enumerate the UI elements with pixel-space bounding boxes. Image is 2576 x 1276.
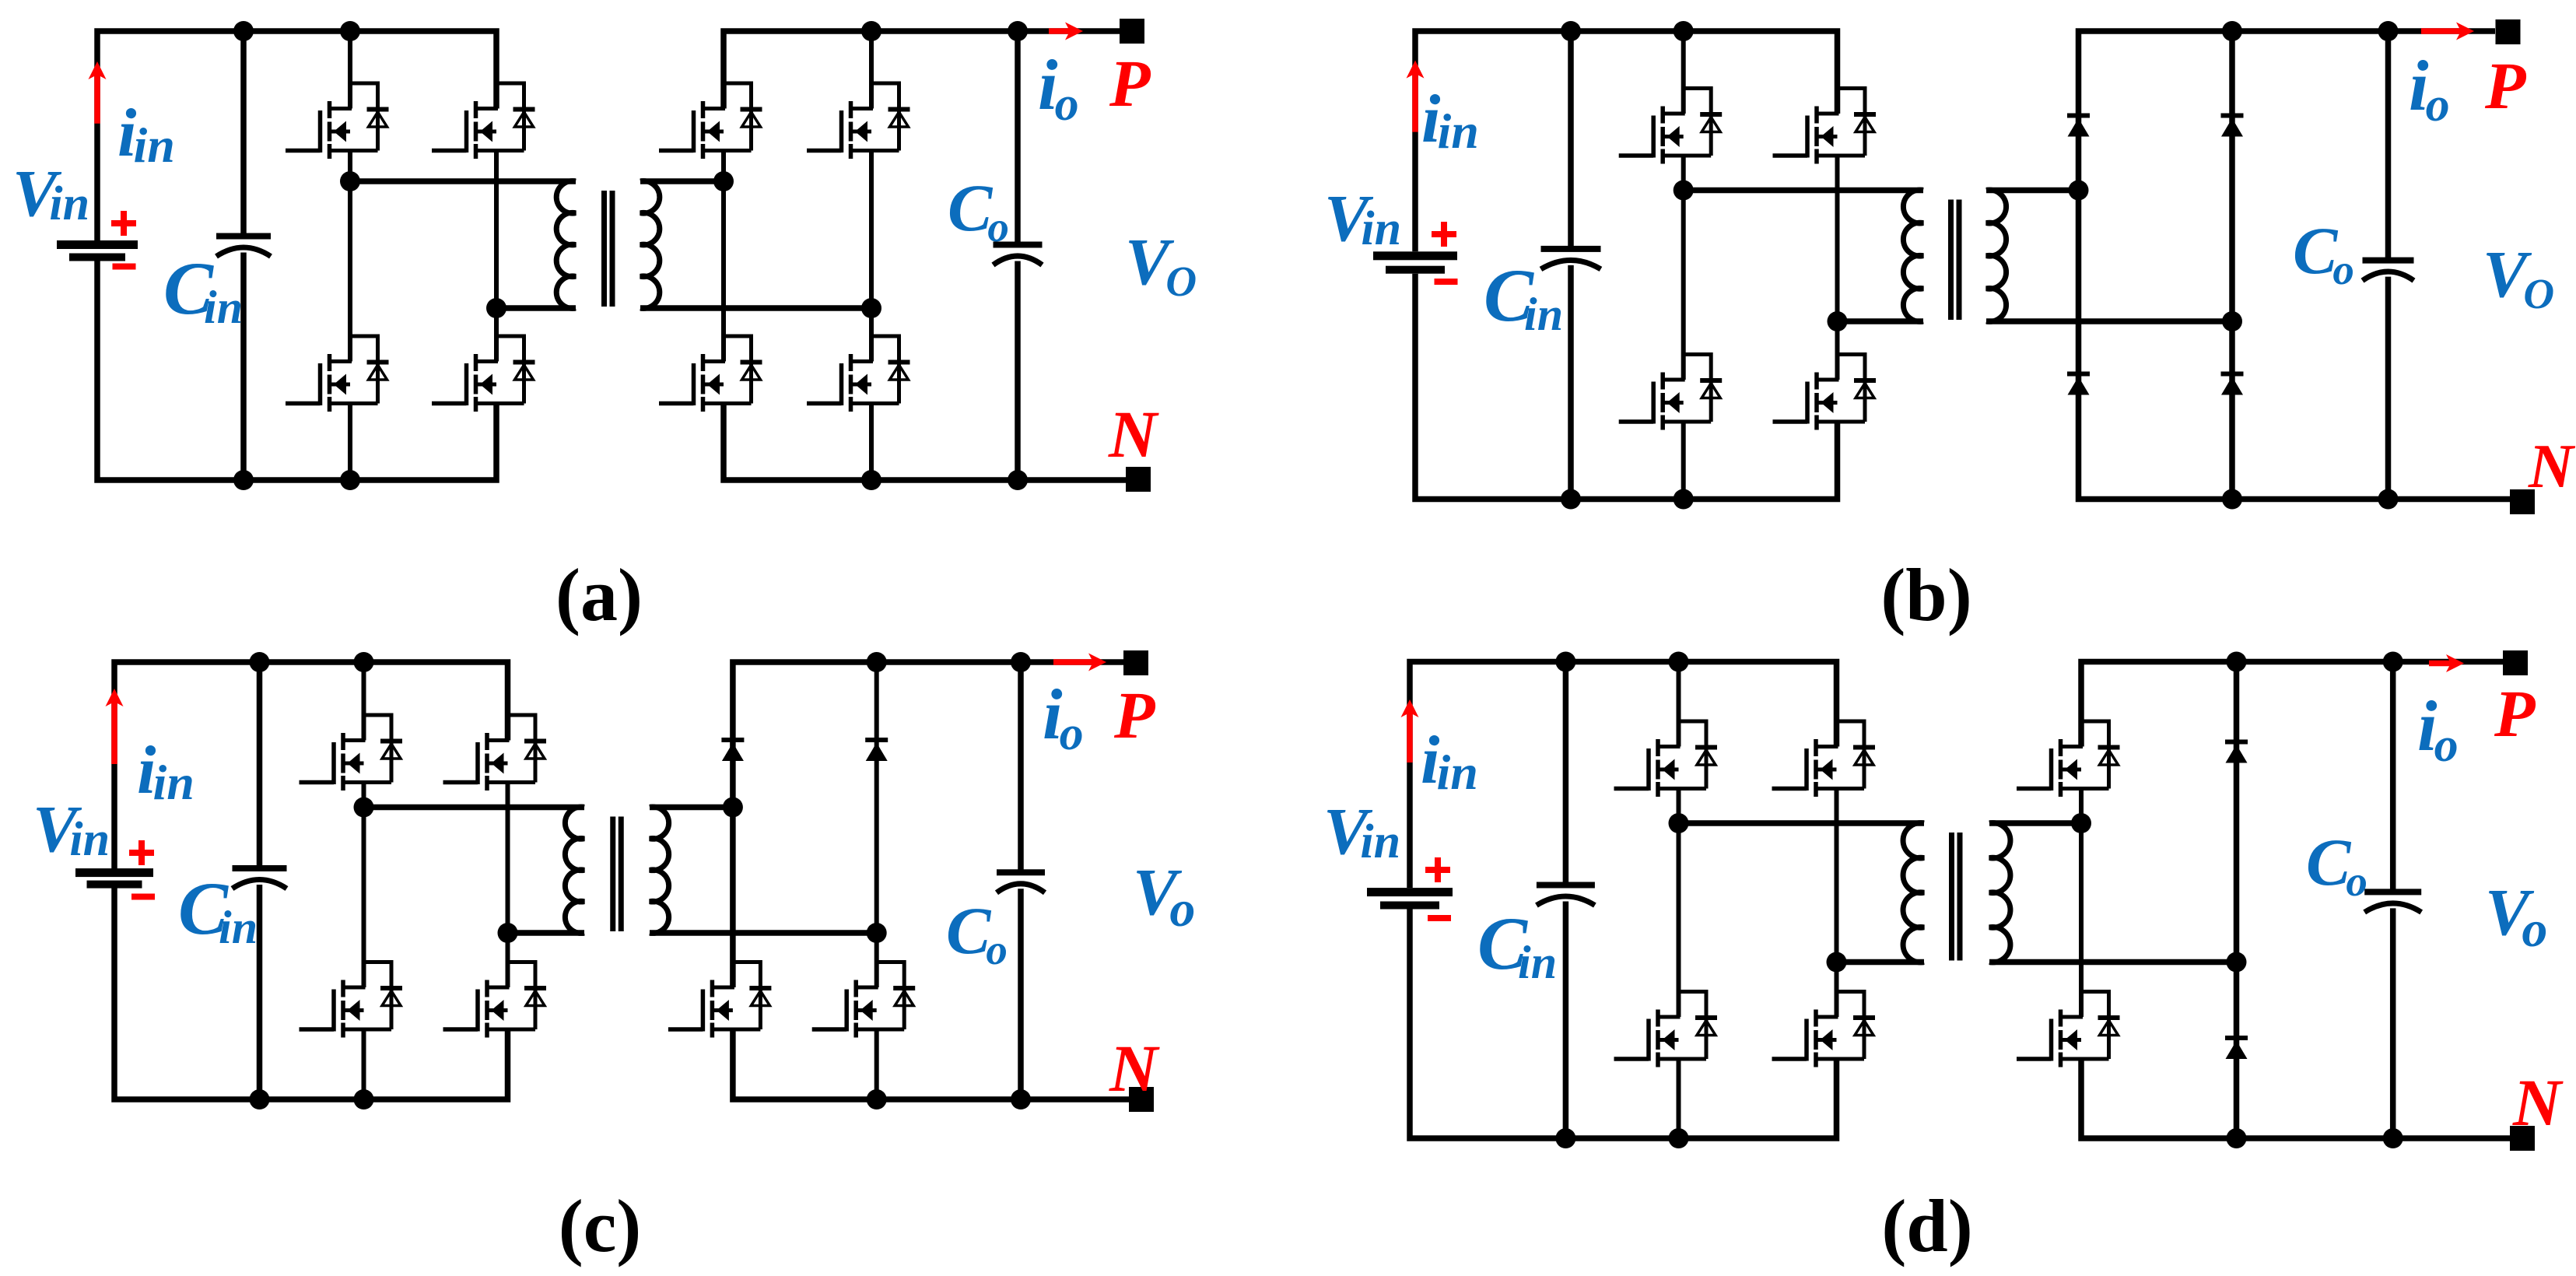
diode D2 [2225,1036,2248,1040]
node A secondary junction [2071,813,2091,833]
junction Cin top [1561,21,1581,41]
transformer core [610,817,615,932]
node B junction [1827,952,1847,973]
wire leg1 mid [348,151,352,362]
arrow io [2421,28,2462,34]
wire secondary top [640,178,724,184]
wire leg2 mid [494,151,499,362]
wire Cin lower [257,885,263,1099]
mosfet S8 [871,336,899,404]
junction leg4 top [2227,652,2247,672]
wire secondary top [650,805,733,811]
wire input loop bottom [97,261,496,481]
junction Cin bottom [250,1089,270,1109]
wire leg4 drain [869,31,874,109]
svg-text:(d): (d) [1881,1184,1972,1267]
svg-text:N: N [1108,397,1159,471]
mosfet S3 [350,336,378,404]
wire leg3 mid [721,151,726,362]
mosfet S1 [1684,89,1712,156]
wire leg4 mid [869,151,874,362]
wire secondary bottom [1989,959,2237,966]
wire secondary bottom [640,305,871,311]
wire leg4 top [874,662,879,987]
mosfet S5 [733,962,761,1030]
circuit (d) hybrid bridge | wire input loop top [1410,662,1837,889]
wire Co upper [2385,31,2392,258]
transformer secondary winding [1986,190,2006,321]
node B secondary junction [861,298,881,318]
junction Co top [1011,652,1031,672]
wire leg2 mid [1835,156,1840,380]
circuit (b) full-bridge + diode rectifier | wire input loop top [1415,31,1838,251]
node A secondary junction [2069,181,2089,201]
battery Vin [57,240,138,249]
node A junction [340,171,360,191]
plus sign [129,850,154,856]
wire leg1 source [362,1029,366,1099]
junction leg4 top [867,652,887,672]
capacitor Co [994,242,1043,248]
terminal P [2496,19,2521,44]
wire leg4 bottom [874,1029,879,1099]
junction leg4 bottom [2222,489,2242,510]
diode D3 [2067,372,2090,377]
junction Co bottom [1008,470,1028,490]
junction leg4 top [861,21,881,41]
node A junction [1674,181,1694,201]
wire Cin lower [240,253,247,481]
diode D2 [2221,114,2244,118]
node A secondary junction [723,797,743,818]
diode D1 [2225,740,2248,745]
arrow io [1053,659,1094,665]
capacitor Cin [1541,246,1601,252]
arrow iin [111,701,117,764]
wire secondary top [1989,820,2081,826]
junction Cin bottom [1555,1128,1575,1148]
wire rectifier left leg [2079,31,2511,500]
transformer primary winding [1903,190,1923,321]
mosfet S3 [1684,355,1712,422]
wire leg1 drain [348,31,352,109]
wire leg3 top [733,662,1123,987]
junction leg1 bottom [354,1089,374,1109]
mosfet S1 [364,715,392,783]
wire leg1 source [1677,1059,1681,1138]
mosfet S3 [1679,992,1707,1060]
junction leg1 bottom [1669,1128,1689,1148]
mosfet S3 [364,962,392,1030]
capacitor Co [2364,889,2421,895]
battery Vin [75,868,153,877]
terminal P [1120,19,1144,44]
junction Co top [2378,21,2399,41]
junction Co bottom [2378,489,2399,510]
svg-text:P: P [2484,48,2527,123]
junction leg1 bottom [340,470,360,490]
transformer secondary winding [650,807,669,933]
diode D1 [721,738,744,742]
mosfet S6 [871,83,899,151]
junction Co bottom [1011,1089,1031,1109]
wire input loop bottom [1415,274,1838,500]
junction Cin bottom [233,470,254,490]
mosfet S4 [1837,992,1865,1060]
wire node A to transformer [1679,820,1925,826]
wire Co lower [1018,889,1024,1099]
terminal N [1126,467,1151,492]
junction Cin top [233,21,254,41]
junction Co top [2383,652,2403,672]
node A junction [1669,813,1689,833]
minus sign [1435,279,1458,285]
arrow io [1049,28,1071,34]
wire leg4 source [869,404,874,481]
terminal N [2510,1126,2535,1151]
wire Co upper [1018,662,1024,870]
wire secondary top [1986,188,2079,194]
wire node B to transformer [496,305,576,311]
wire node B to transformer [508,930,585,936]
wire node B to transformer [1837,959,1925,966]
plus sign [1425,867,1450,873]
mosfet S6 [2081,992,2109,1060]
wire node A to transformer [350,178,576,184]
minus sign [131,894,155,900]
wire Co upper [2390,662,2396,889]
diode D1 [2067,114,2090,118]
junction Co top [1008,21,1028,41]
svg-text:N: N [2528,433,2576,501]
wire Cin lower [1563,902,1569,1139]
wire leg1 mid [362,783,366,988]
junction leg4 top [2222,21,2242,41]
junction leg4 bottom [861,470,881,490]
junction leg1 bottom [1674,489,1694,510]
battery Vin [1367,888,1453,896]
circuit (c) semi-active bridge | wire input loop top [114,662,508,869]
wire leg3 top [724,31,1120,109]
wire Co upper [1015,31,1021,242]
wire secondary bottom [1986,318,2232,324]
wire Cin upper [1563,662,1569,883]
wire leg4 [2234,662,2240,1139]
mosfet S2 [1838,89,1866,156]
svg-text:P: P [2494,676,2536,751]
wire leg1 mid [1677,789,1681,1018]
minus sign [1428,915,1451,921]
wire Cin upper [257,662,263,866]
capacitor Cin [233,865,287,871]
diode D2 [865,738,888,742]
arrow iin [1407,712,1413,762]
circuit (a) dual-active-bridge | wire input loop top [97,31,496,240]
capacitor Co [2363,258,2414,264]
wire leg3 bottom [733,1029,1129,1099]
junction Co bottom [2383,1128,2403,1148]
junction leg1 top [1674,21,1694,41]
wire leg3 top [2081,662,2503,747]
wire input loop bottom [1410,910,1837,1139]
terminal P [2503,650,2528,675]
svg-text:(b): (b) [1880,553,1971,636]
mosfet S1 [350,83,378,151]
wire leg1 drain [1677,662,1681,747]
wire secondary bottom [650,930,877,936]
mosfet S2 [508,715,536,783]
svg-text:N: N [2512,1065,2564,1140]
junction leg1 top [1669,652,1689,672]
terminal P [1123,650,1148,675]
arrow iin [94,74,100,124]
wire rectifier right leg [2229,31,2235,500]
transformer core [601,191,607,307]
junction leg4 bottom [867,1089,887,1109]
node A junction [354,797,374,818]
wire Cin upper [1568,31,1574,246]
junction Cin bottom [1561,489,1581,510]
junction Cin top [1555,652,1575,672]
wire node A to transformer [364,805,585,811]
svg-text:P: P [1113,678,1156,752]
wire Cin upper [240,31,247,233]
plus sign [111,220,136,226]
junction Cin top [250,652,270,672]
mosfet S5 [2081,721,2109,789]
junction leg1 top [340,21,360,41]
wire leg2 mid [1835,789,1839,1018]
wire leg2 mid [506,783,510,988]
mosfet S4 [496,336,524,404]
wire Cin lower [1568,265,1574,500]
mosfet S2 [1837,721,1865,789]
terminal N [1129,1087,1154,1112]
wire leg1 source [348,404,352,481]
node B junction [1828,311,1848,331]
transformer primary winding [565,807,584,933]
svg-text:(c): (c) [559,1184,642,1267]
transformer core [1949,833,1954,961]
wire Co lower [2385,277,2392,500]
mosfet S7 [724,336,752,404]
wire leg1 source [1681,422,1686,500]
transformer secondary winding [1989,823,2010,962]
capacitor Cin [1537,882,1595,889]
wire input loop bottom [114,889,508,1100]
transformer secondary winding [640,181,660,309]
transformer core [1948,200,1954,321]
wire leg3 mid [2079,789,2084,1018]
capacitor Co [997,869,1045,875]
diode D4 [2221,372,2244,377]
wire node B to transformer [1838,318,1924,324]
wire Co lower [1015,261,1021,481]
node B secondary junction [867,923,887,943]
node B junction [498,923,518,943]
svg-text:(a): (a) [556,553,643,636]
junction leg1 top [354,652,374,672]
mosfet S5 [724,83,752,151]
wire leg1 mid [1681,156,1686,380]
terminal N [2510,489,2535,514]
battery Vin [1373,251,1457,260]
svg-text:P: P [1109,46,1151,121]
minus sign [113,264,136,270]
plus sign [1432,231,1456,237]
mosfet S2 [496,83,524,151]
arrow iin [1412,73,1418,132]
wire leg1 drain [1681,31,1686,114]
transformer primary winding [556,181,576,309]
svg-text:N: N [1109,1031,1160,1106]
junction leg4 bottom [2227,1128,2247,1148]
wire leg3 bottom [2081,1059,2510,1138]
wire node A to transformer [1684,188,1923,194]
node B junction [486,298,506,318]
transformer primary winding [1903,823,1924,962]
mosfet S6 [877,962,905,1030]
wire leg1 drain [362,662,366,741]
mosfet S1 [1679,721,1707,789]
capacitor Cin [216,233,271,240]
mosfet S4 [1838,355,1866,422]
node A secondary junction [713,171,734,191]
node B secondary junction [2222,311,2242,331]
arrow io [2429,661,2452,667]
wire leg3 bottom [724,404,1126,481]
node B secondary junction [2227,952,2247,973]
wire Co lower [2390,908,2396,1138]
mosfet S4 [508,962,536,1030]
